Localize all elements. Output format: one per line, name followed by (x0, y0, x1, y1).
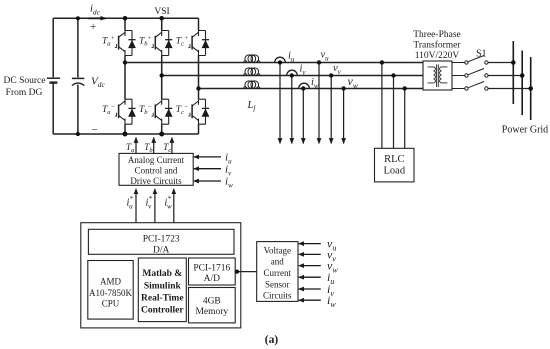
svg-text:PCI-1723: PCI-1723 (143, 235, 180, 245)
svg-text:Ta+: Ta+ (102, 35, 115, 48)
svg-text:Load: Load (384, 166, 406, 177)
svg-text:PCI-1716: PCI-1716 (193, 264, 230, 274)
svg-text:From DG: From DG (6, 88, 43, 98)
svg-text:Analog Current: Analog Current (128, 155, 185, 165)
svg-text:Three-Phase: Three-Phase (413, 30, 460, 40)
svg-text:Lf: Lf (247, 100, 257, 113)
svg-text:Tb+: Tb+ (139, 35, 152, 48)
svg-text:RLC: RLC (384, 154, 404, 165)
svg-text:Ta−: Ta− (102, 104, 115, 117)
svg-text:A10-7850K: A10-7850K (89, 288, 132, 298)
svg-text:D/A: D/A (153, 246, 170, 256)
svg-text:4GB: 4GB (203, 297, 221, 307)
svg-text:Matlab &: Matlab & (142, 269, 182, 279)
svg-text:Circuits: Circuits (263, 291, 292, 301)
svg-text:Simulink: Simulink (144, 281, 182, 291)
svg-text:idc: idc (90, 4, 101, 17)
svg-text:vv: vv (333, 63, 342, 76)
svg-text:i*v: i*v (146, 195, 153, 211)
svg-text:iu: iu (288, 51, 295, 64)
svg-text:Tc−: Tc− (176, 104, 189, 117)
svg-text:Drive Circuits: Drive Circuits (130, 176, 182, 186)
svg-text:VSI: VSI (154, 7, 169, 17)
svg-text:−: − (92, 124, 98, 136)
svg-text:Controller: Controller (141, 306, 184, 316)
svg-text:Current: Current (264, 268, 292, 278)
svg-text:i*w: i*w (164, 195, 172, 211)
svg-text:Memory: Memory (195, 307, 228, 317)
svg-text:iw: iw (225, 176, 233, 190)
svg-text:Tc+: Tc+ (176, 35, 189, 48)
svg-text:Vdc: Vdc (91, 76, 105, 90)
svg-text:A/D: A/D (204, 274, 221, 284)
svg-text:Ta: Ta (126, 142, 134, 154)
svg-text:i*u: i*u (127, 195, 134, 211)
svg-text:Voltage: Voltage (264, 245, 291, 255)
svg-text:Power Grid: Power Grid (502, 125, 548, 136)
svg-text:+: + (90, 21, 96, 33)
svg-text:Tb−: Tb− (139, 104, 152, 117)
svg-text:Real-Time: Real-Time (141, 294, 184, 304)
svg-text:AMD: AMD (100, 277, 122, 287)
svg-text:Control and: Control and (135, 165, 178, 175)
svg-text:110V/220V: 110V/220V (415, 51, 460, 61)
svg-text:S1: S1 (476, 49, 487, 60)
svg-text:CPU: CPU (102, 298, 120, 308)
svg-text:Transformer: Transformer (413, 40, 461, 51)
svg-text:Tb: Tb (144, 142, 153, 154)
svg-text:and: and (271, 257, 284, 267)
svg-text:Tc: Tc (163, 142, 171, 154)
svg-text:(a): (a) (265, 334, 279, 346)
svg-text:vw: vw (348, 74, 358, 90)
svg-text:Sensor: Sensor (265, 279, 290, 289)
svg-text:vu: vu (321, 50, 330, 63)
svg-text:DC Source: DC Source (4, 76, 46, 86)
svg-text:iv: iv (300, 64, 307, 77)
